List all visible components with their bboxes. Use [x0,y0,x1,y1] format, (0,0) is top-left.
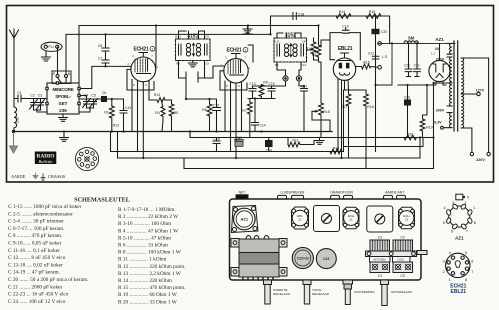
capacitor C10 [186,82,221,132]
AZ1 base pin numbers [443,196,476,241]
capacitor C26 [398,85,427,138]
capacitor C18 [293,13,296,20]
svg-text:C 12......... 8 uF 450 V: C 12......... 8 uF 450 V elco [8,255,66,261]
tube2 pin numbers [220,56,250,89]
svg-text:3151: 3151 [187,34,198,40]
terminal mains 2 [487,152,490,155]
svg-text:C20: C20 [381,30,387,34]
EBL21 pin wires [338,80,349,159]
svg-text:SCHEMASLEUTEL: SCHEMASLEUTEL [74,197,130,204]
svg-text:R17: R17 [341,105,348,109]
svg-text:1: 1 [127,62,129,66]
svg-text:9: 9 [467,196,469,200]
wire bus B line [67,33,271,35]
svg-text:R19: R19 [426,126,433,130]
svg-text:C 24 ...... 100 uF 12 V el: C 24 ...... 100 uF 12 V elco [8,299,66,305]
svg-text:C13: C13 [249,82,255,86]
resistor R13b [330,90,344,154]
svg-text:1: 1 [152,47,154,51]
svg-text:R20: R20 [407,132,414,136]
svg-text:21: 21 [349,218,353,222]
svg-text:REGELAAR: REGELAAR [273,292,291,296]
svg-text:R9: R9 [263,81,268,85]
svg-text:C6: C6 [102,91,107,95]
svg-text:AFSTEM.: AFSTEM. [373,258,386,262]
heater bus 1 [111,132,343,152]
trimmer C5 [90,99,98,109]
svg-text:C2: C2 [30,94,35,98]
resistor R6 [207,99,212,132]
tube1 pin wires [132,80,149,159]
svg-text:5: 5 [443,221,445,225]
tube ECH21 no2 [224,59,248,83]
capacitor C14 [252,99,259,132]
svg-text:C26: C26 [404,96,410,100]
capacitor C20 [372,29,379,33]
svg-text:R15: R15 [323,110,330,114]
svg-text:C2: C2 [400,236,404,240]
ECH21 socket a [343,207,359,228]
svg-text:2: 2 [442,270,444,274]
shaft volume [264,280,272,285]
svg-text:bl.11: bl.11 [175,35,181,39]
svg-text:C 8 .......... 470 pF keram: C 8 .......... 470 pF keram. [8,233,62,239]
svg-text:P.U.: P.U. [48,45,54,49]
EBL21 socket [292,207,309,229]
svg-text:R 8 ............... 100 kOhm 1: R 8 ............... 100 kOhm 1 W [118,250,181,256]
transformer terminals [243,277,273,280]
svg-text:AZ1: AZ1 [455,236,464,241]
svg-text:MINICORE: MINICORE [53,87,74,92]
connector LS a [278,195,287,199]
svg-text:4: 4 [449,251,451,255]
svg-text:C 21 ........ 2000 pF koker: C 21 ........ 2000 pF koker [8,284,63,290]
svg-text:4: 4 [248,66,250,70]
capacitor C6 [102,97,107,102]
shaft switch [381,280,389,285]
svg-text:R13: R13 [333,147,340,151]
svg-text:C3: C3 [378,236,382,240]
resistor R19 [420,85,427,138]
svg-text:SET: SET [59,101,68,106]
bus low [184,83,434,169]
wires detector [253,62,305,86]
capacitor C23 [414,43,421,76]
svg-text:C4: C4 [378,274,382,278]
wire grid2 [205,66,224,78]
heater wire right [420,83,434,158]
resistor R14 [336,14,351,19]
heater bus 2 [118,132,421,159]
ground 3151 [188,61,197,67]
svg-text:GRAMOFOON: GRAMOFOON [330,191,353,195]
trimmer C4 [80,96,90,109]
ground stub left [60,132,69,142]
wire grid1 [80,66,131,88]
plate line C20 [375,16,377,152]
svg-text:8: 8 [465,278,467,282]
svg-text:200V: 200V [436,109,445,113]
connector GRAM b [344,195,353,199]
switch P/B box [52,71,71,84]
connector GRAM a [331,195,340,199]
svg-text:C12: C12 [236,136,242,140]
base pins [451,256,454,259]
svg-text:C 20 ....... 50 a 200 pF mica: C 20 ....... 50 a 200 pF mica of keram. [8,276,88,283]
svg-text:1: 1 [449,278,451,282]
resistor R17 [345,90,367,158]
ground P.U. [42,51,51,61]
svg-text:R 3-16 ............ 100 Ohm: R 3-16 ............ 100 Ohm [118,221,172,227]
terminal 6.3V [441,126,444,129]
wires 3152 top [243,26,301,63]
svg-text:C 13-18 .... 0,02 uF koker: C 13-18 .... 0,02 uF koker [8,262,63,268]
svg-text:R 5-10 ............ 47 kOhm: R 5-10 ............ 47 kOhm [118,235,172,241]
ECH21 socket b [399,207,415,228]
rectifier AZ1 [429,60,450,81]
resistor R11 [288,138,314,147]
svg-text:1: 1 [473,206,475,210]
svg-text:R5: R5 [174,111,179,115]
HT bus [376,43,456,85]
svg-text:R10: R10 [306,47,313,51]
svg-text:C17: C17 [301,85,307,89]
resistor R4 [161,100,165,132]
svg-text:R16: R16 [363,61,370,65]
svg-text:21: 21 [405,218,409,222]
svg-text:EBL21: EBL21 [451,289,467,295]
svg-text:R 14 .............. 220 kOhm: R 14 .............. 220 kOhm [118,278,173,284]
svg-text:LUIDSPREKER: LUIDSPREKER [281,191,305,195]
svg-text:C12: C12 [323,257,329,261]
shaft tone [303,280,311,285]
svg-text:R12: R12 [113,124,120,128]
node antenna/gnd [12,130,14,132]
tube2 screen box [220,71,247,90]
terminal mains 1 [470,152,473,155]
trimmer C3 [37,99,45,111]
svg-text:C7: C7 [98,57,102,61]
trimmer C2 [30,99,38,111]
svg-text:AARDE: AARDE [11,174,26,179]
diode node D1 [283,76,288,81]
svg-text:7: 7 [244,56,246,60]
svg-text:R 13 .............. 2,2 kOhm: R 13 .............. 2,2 kOhm 1 W [118,271,181,277]
gang lower sections [370,262,390,273]
svg-text:8: 8 [474,221,476,225]
svg-text:4V: 4V [435,47,440,51]
svg-text:C 2-5 ........ afstemcondensat: C 2-5 ........ afstemcondensator [8,210,73,217]
capacitor C22 [405,43,412,76]
svg-text:3152: 3152 [285,33,296,39]
resistor R9 [253,85,272,99]
chassis outline [230,199,422,280]
svg-text:C24: C24 [266,149,272,153]
svg-text:C10: C10 [213,103,220,107]
svg-text:R 4 ............... 47 kOhm: R 4 ............... 47 kOhm 1 W [118,228,178,234]
tube1 screen box [127,69,154,90]
svg-text:C 22-23 ... 16 uF 450 V e: C 22-23 ... 16 uF 450 V elco [8,292,69,298]
svg-text:2: 2 [132,54,134,58]
legend AARDE CHASSIS [11,173,66,181]
ground coil unit [59,114,68,121]
svg-text:R 2 ............... 22 kOhm: R 2 ............... 22 kOhm 2 W [118,214,178,220]
winding 4V [447,43,452,54]
capacitor C12 [235,138,244,140]
svg-text:C 14-19 ... 47 pF keram.: C 14-19 ... 47 pF keram. [8,270,60,276]
IF transformer 3151 box [176,39,211,61]
wire C2C3 bottom [34,110,48,112]
capacitor C1 [14,95,47,102]
svg-text:1,1: 1,1 [431,52,435,56]
svg-text:R 20 .............. 33 Ohm: R 20 .............. 33 Ohm 1 W [118,299,177,305]
svg-text:R15: R15 [369,10,376,14]
svg-text:3: 3 [442,260,444,264]
keyhole [455,261,460,268]
svg-text:127V: 127V [476,89,485,93]
svg-text:SPOEL-: SPOEL- [55,94,71,99]
svg-text:NET: NET [239,191,246,195]
svg-text:6: 6 [145,83,147,87]
svg-text:C22: C22 [404,64,410,68]
svg-text:C3: C3 [38,94,43,98]
svg-text:R8: R8 [312,53,317,57]
svg-text:4: 4 [156,65,158,69]
svg-text:C18: C18 [298,13,304,17]
AZ1 mount plate [232,206,259,233]
bus mid [190,132,434,138]
svg-text:7: 7 [151,54,153,58]
svg-text:AZ1: AZ1 [241,217,249,222]
svg-text:R7: R7 [242,109,247,113]
svg-text:R 15 .............. 470 kOhm p: R 15 .............. 470 kOhm potm. [118,285,185,291]
svg-text:REGELAAR: REGELAAR [312,292,330,296]
capacitor C11 [112,99,127,132]
transformer ears [231,239,239,248]
base pin numbers ECH/EBL [442,251,473,295]
socket wiring view [75,147,98,170]
gang label boxes [370,257,391,263]
capacitor C21 [372,56,379,59]
svg-text:C14: C14 [301,63,307,67]
capacitor C24 [266,141,273,147]
resistor R16 [356,64,378,69]
diode node D2 [296,76,301,81]
grid loop EBL21 [321,33,360,60]
tube EBL21 [333,58,355,80]
gang shaft right [417,251,427,255]
svg-text:R 6 ............... 33 kOhm: R 6 ............... 33 kOhm [118,243,169,249]
svg-text:B: B [68,72,71,76]
svg-text:R1: R1 [104,111,109,115]
svg-text:C9: C9 [205,62,209,66]
svg-text:C 11-16 .... 0,1 uF koker: C 11-16 .... 0,1 uF koker [8,248,60,254]
AZ1 base diagram [449,206,470,227]
potentiometer R15 [319,62,324,138]
center tap [434,82,453,84]
connector NET [236,195,248,199]
tuning gang block AFSTEM [370,240,390,251]
trimmer box 2 [367,206,393,232]
capacitor can C12 [316,249,336,269]
svg-text:CHASSIS: CHASSIS [48,174,66,179]
svg-text:C 9-10...... 0,05 uF koker: C 9-10...... 0,05 uF koker [8,241,62,247]
svg-text:C5: C5 [91,94,96,98]
svg-text:C21: C21 [368,52,374,56]
svg-text:ECH21: ECH21 [226,48,242,54]
resistor R5 [169,100,174,132]
svg-text:C23: C23 [414,64,420,68]
resistor R18 [364,90,369,169]
svg-text:R11: R11 [292,139,298,143]
svg-text:R18: R18 [367,105,374,109]
svg-text:R 1-7-9-17-18 ... 1 MOhm: R 1-7-9-17-18 ... 1 MOhm [118,207,175,213]
AZ1 base pins [446,203,473,229]
tube ECH21 no1 [131,57,156,82]
svg-text:R 11 .............. 1 kOhm: R 11 .............. 1 kOhm [118,257,167,263]
svg-text:C9: C9 [205,35,209,39]
svg-text:2: 2 [245,48,247,52]
svg-text:8: 8 [133,83,135,87]
svg-text:C15: C15 [268,82,274,86]
svg-text:L.S.: L.S. [382,55,388,59]
top coupling line [271,16,390,43]
svg-text:R9: R9 [275,63,279,67]
svg-text:R13: R13 [154,93,161,97]
tube2 pin wires [225,81,242,158]
svg-text:AFSTEMMING: AFSTEMMING [354,290,375,294]
svg-text:5: 5 [465,251,467,255]
svg-text:C22+23: C22+23 [297,257,309,261]
tube1 pin numbers [127,54,158,87]
svg-text:P: P [53,72,56,76]
svg-text:R 12 .............. 220 kOhm p: R 12 .............. 220 kOhm potm. [118,264,185,270]
P.U. connector [41,42,62,51]
capacitor C13 [249,86,256,99]
resistor R13 [149,98,170,103]
terminal LS top [378,42,382,46]
shaft tuning [343,280,353,284]
svg-text:C16: C16 [213,137,219,141]
svg-text:C 3-4 ........ 30 pF trimm: C 3-4 ........ 30 pF trimmer [8,219,64,225]
svg-text:6: 6 [471,260,473,264]
svg-text:C4: C4 [84,94,89,98]
svg-text:R 19 .............. 68 Ohm: R 19 .............. 68 Ohm 1 W [118,292,177,298]
svg-text:AZ1: AZ1 [435,37,444,42]
svg-text:4: 4 [443,206,445,210]
capacitor C8 [102,34,109,60]
svg-text:7: 7 [466,229,468,233]
svg-text:8: 8 [226,84,228,88]
terminal 127V [477,92,480,95]
svg-text:SM: SM [408,36,415,41]
parts list capacitors [8,203,88,305]
connector AARDE a [384,195,393,199]
earth arrow [13,133,15,146]
choke SM [404,41,418,44]
ECH21 EBL21 base diagram [446,253,470,277]
antenna A [10,29,19,107]
transformer core [454,41,458,131]
svg-text:C5: C5 [400,274,404,278]
svg-text:SCHAKELAAR: SCHAKELAAR [391,290,413,294]
tuning gang block OSC [393,240,413,251]
svg-text:C 6-7-17.... 100 pF keram.: C 6-7-17.... 100 pF keram. [8,226,64,232]
svg-text:7: 7 [471,270,473,274]
RADIO Bulletin logo [35,152,57,165]
resistor R1 [109,105,114,132]
trimmer box 1 [314,206,340,232]
terminal LS bottom [378,66,382,70]
winding 6.3V [444,113,453,128]
mains transformer body [239,239,279,277]
resistor R7 [247,99,252,138]
svg-text:Bulletin: Bulletin [39,159,54,164]
svg-text:C8: C8 [98,44,102,48]
connector LS b [292,195,304,199]
resistor R8 [314,26,321,63]
svg-text:2280: 2280 [16,116,20,123]
aux wire right [344,138,424,147]
capacitor C16 [213,138,220,152]
svg-text:C8: C8 [302,40,306,44]
svg-text:C19: C19 [342,25,348,29]
parts list resistors [118,207,185,305]
chassis text labels [239,191,413,297]
coil unit MINICORE SPOEL-SET 236 [47,83,79,114]
svg-text:3: 3 [452,201,454,205]
primary taps [461,58,488,152]
capacitor C15 [268,86,275,99]
svg-text:R14: R14 [339,10,346,14]
svg-text:ECH21: ECH21 [133,47,149,53]
svg-text:C 1-15 ...... 1000 pF mica o: C 1-15 ...... 1000 pF mica of koker [8,203,82,210]
winding HT [447,57,452,106]
connector AARDE b [397,195,406,199]
svg-text:6,3V: 6,3V [434,121,442,125]
IF transformer 3152 box [274,38,307,62]
svg-text:220V: 220V [476,158,485,162]
svg-text:2: 2 [464,201,466,205]
wiper arrow R15 [312,111,330,131]
svg-text:6: 6 [238,84,240,88]
wire osc [79,99,101,112]
capacitor C7 [102,60,109,66]
svg-text:21: 21 [298,218,302,222]
svg-text:R6: R6 [202,108,207,112]
wire bus P.U. top [79,26,319,84]
svg-text:R9: R9 [176,62,180,66]
svg-text:2: 2 [225,56,227,60]
antenna coil L1 [14,107,17,132]
AZ1 tube circle [234,208,256,230]
resistor R15b [366,14,381,19]
capacitor C17 [301,86,308,132]
svg-text:236: 236 [59,108,67,113]
svg-text:AARDE ANT.: AARDE ANT. [385,191,405,195]
resistor R20 [404,135,416,140]
svg-text:EBL21: EBL21 [338,46,353,52]
svg-text:6: 6 [451,229,453,233]
svg-text:C14: C14 [259,124,265,128]
resistor R10 [307,38,316,60]
wires 3151 [156,26,205,70]
ground top detector [243,26,252,33]
svg-text:bl.11: bl.11 [274,40,280,44]
svg-text:C1: C1 [17,91,22,95]
gang frame bar [366,251,417,257]
svg-text:200V: 200V [436,58,445,62]
